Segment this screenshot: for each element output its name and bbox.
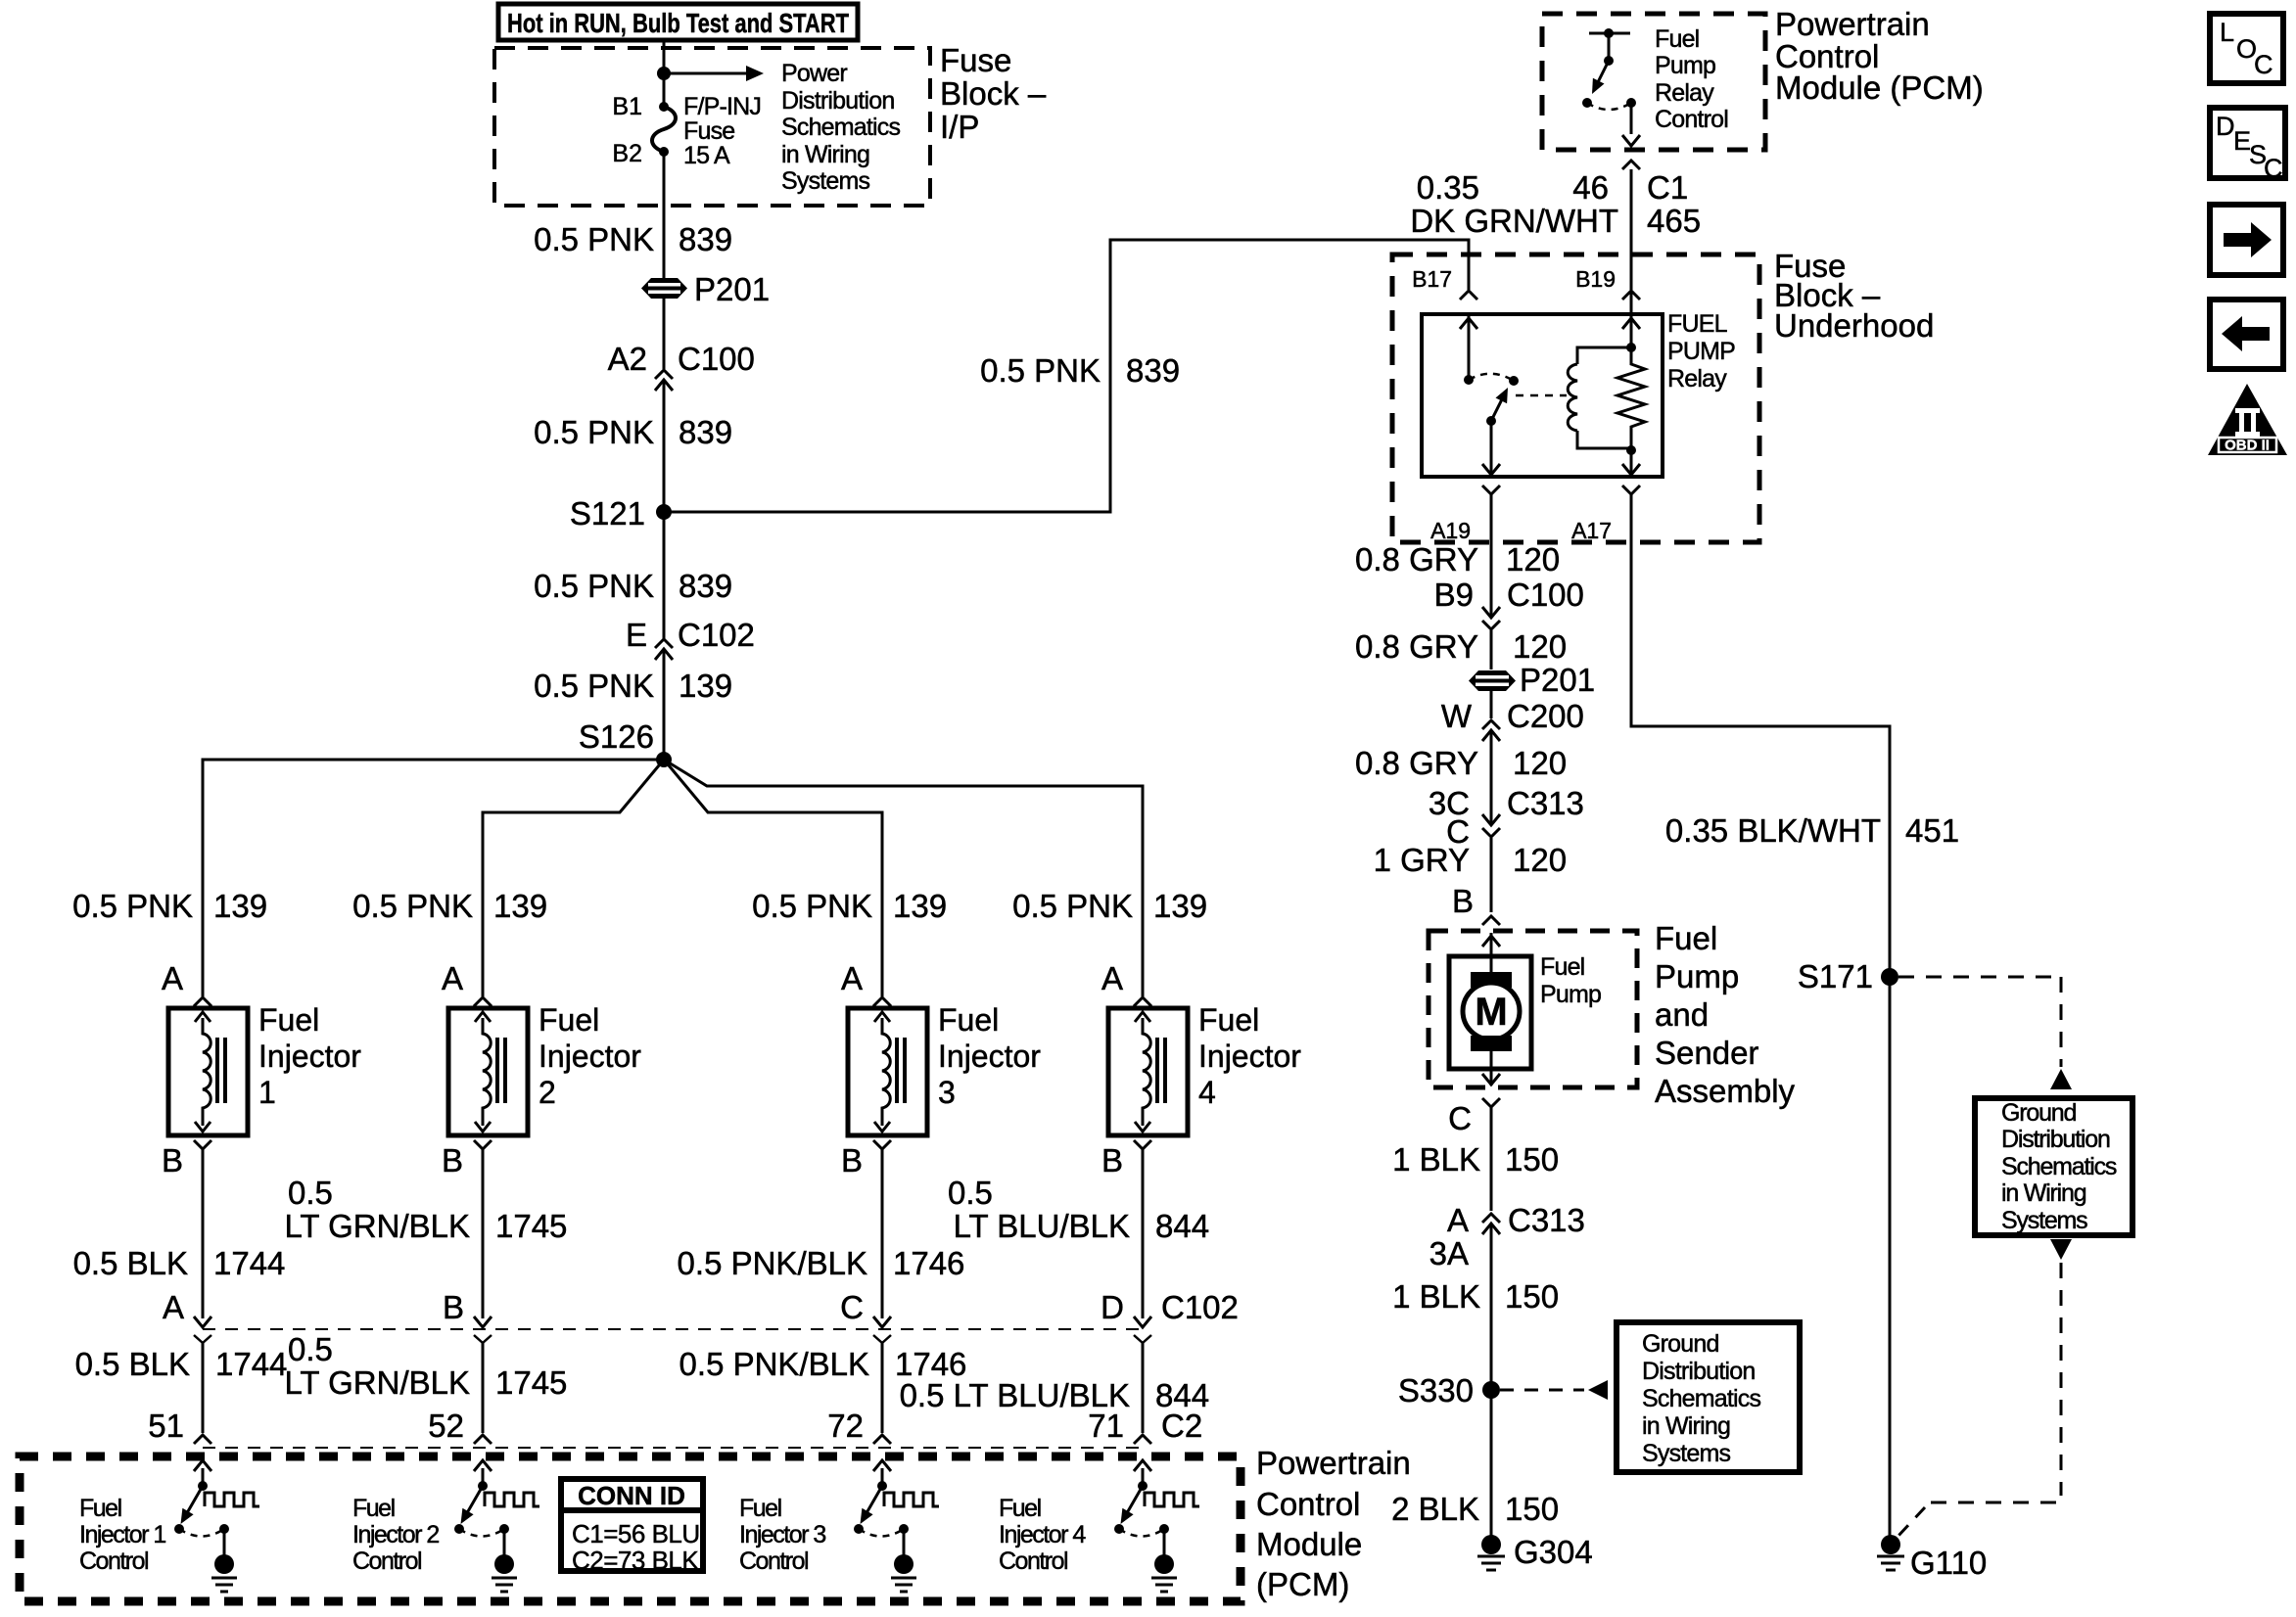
svg-text:B: B	[442, 1142, 463, 1178]
svg-text:Injector 4: Injector 4	[999, 1521, 1086, 1548]
connector arrow into C102 (injector 1)	[194, 1317, 211, 1327]
relay resistor	[1617, 347, 1645, 448]
connector symbol C100 B9	[1482, 607, 1500, 618]
wire label 1 BLK 150 (1)	[1392, 1141, 1559, 1178]
svg-text:1 GRY: 1 GRY	[1374, 842, 1470, 878]
svg-text:1744: 1744	[215, 1346, 287, 1382]
svg-text:52: 52	[428, 1408, 464, 1444]
PCM driver right contact dot (injector 1)	[219, 1524, 229, 1534]
svg-text:C: C	[840, 1289, 864, 1325]
svg-text:C102: C102	[1161, 1289, 1239, 1325]
PCM driver wire to ground (injector 4)	[1163, 1529, 1166, 1558]
icon box LOC	[2210, 14, 2283, 83]
splice S126	[656, 752, 672, 767]
relay common wire to A19	[1482, 421, 1500, 477]
PCM driver switch arm (injector 3)	[861, 1486, 883, 1524]
svg-text:120: 120	[1506, 541, 1560, 577]
icon box arrow right	[2210, 205, 2283, 275]
svg-text:B2: B2	[612, 140, 642, 167]
svg-text:G304: G304	[1514, 1534, 1593, 1570]
svg-text:0.5: 0.5	[288, 1331, 333, 1367]
svg-text:3: 3	[938, 1075, 956, 1110]
relay armature contact dot	[1509, 376, 1519, 386]
PCM driver ground dot (injector 4)	[1154, 1554, 1174, 1574]
fuse block underhood dashed box	[1392, 254, 1759, 542]
svg-text:D: D	[1101, 1289, 1124, 1325]
svg-text:139: 139	[213, 888, 267, 924]
label FUEL PUMP Relay	[1667, 310, 1735, 393]
svg-text:Underhood: Underhood	[1774, 307, 1934, 344]
svg-text:1746: 1746	[893, 1245, 964, 1281]
PCM driver wire to ground (injector 3)	[903, 1529, 906, 1558]
PCM driver PWM waveform (injector 2)	[485, 1493, 539, 1506]
wire C100 to P201	[1490, 630, 1493, 670]
svg-text:0.5: 0.5	[288, 1175, 333, 1211]
PCM driver arrow (injector 4)	[1134, 1460, 1151, 1486]
fuel pump feed arrow	[1482, 933, 1500, 972]
PCM relay-control feed line	[1589, 28, 1630, 61]
label Fuel Injector 2	[539, 1002, 641, 1110]
wire injector 4 B to C102	[1142, 1149, 1145, 1318]
wire injector 1 B to C102	[202, 1149, 205, 1318]
fuel injector 1 box	[168, 1008, 248, 1135]
svg-text:P201: P201	[694, 271, 770, 307]
pin fork A (injector 2)	[474, 997, 492, 1006]
PCM driver node dot (injector 4)	[1138, 1481, 1148, 1491]
pin fork A (injector 4)	[1134, 997, 1151, 1006]
node junction above fuse	[657, 67, 671, 80]
fuel injector 4 box	[1108, 1008, 1188, 1135]
wire label 0.5 BLK 1744 (injector 1 above C102)	[73, 1245, 286, 1281]
grommet P201 (left)	[641, 278, 687, 299]
svg-text:Power: Power	[781, 60, 847, 87]
svg-text:Injector: Injector	[539, 1039, 641, 1074]
svg-text:120: 120	[1513, 745, 1567, 781]
wire injector 3 B to C102	[881, 1149, 884, 1318]
fuel pump motor circle	[1463, 983, 1520, 1039]
wire S126 branch to injector 1	[203, 760, 664, 996]
svg-text:0.35: 0.35	[1417, 169, 1479, 206]
terminal dot B2	[659, 147, 669, 157]
svg-text:C313: C313	[1508, 1202, 1585, 1238]
svg-text:1: 1	[258, 1075, 276, 1110]
svg-text:Module (PCM): Module (PCM)	[1775, 69, 1984, 106]
wire label 0.5 PNK 839 (to relay)	[980, 352, 1180, 389]
PCM driver dashed throw arc (injector 4)	[1119, 1529, 1164, 1537]
PCM driver switch arm (injector 2)	[461, 1486, 484, 1524]
connector symbol C200 W	[1482, 720, 1500, 729]
svg-text:150: 150	[1505, 1278, 1559, 1315]
wire label 1 BLK 150 (2)	[1392, 1278, 1559, 1315]
svg-text:839: 839	[1126, 352, 1180, 389]
fuel pump and sender assembly dashed box	[1429, 931, 1637, 1087]
wire label 0.8 GRY 120 (2)	[1355, 628, 1567, 665]
wire C313 to S330	[1490, 1224, 1493, 1536]
svg-text:D: D	[2216, 112, 2235, 141]
svg-text:Pump: Pump	[1540, 981, 1601, 1008]
svg-text:B: B	[162, 1142, 183, 1178]
PCM driver ground symbol (injector 1)	[211, 1578, 237, 1592]
connector symbol C100 A2	[655, 370, 673, 379]
wire label 0.35 BLK/WHT 451	[1665, 812, 1959, 849]
PCM dashed box (bottom)	[20, 1456, 1241, 1601]
svg-text:139: 139	[1153, 888, 1207, 924]
svg-text:0.5 PNK: 0.5 PNK	[1012, 888, 1133, 924]
splice S121	[656, 504, 672, 520]
svg-text:1745: 1745	[495, 1364, 567, 1401]
relay coil bottom node	[1626, 445, 1636, 455]
svg-text:C200: C200	[1507, 698, 1584, 734]
svg-text:B1: B1	[612, 93, 642, 120]
svg-text:Fuel: Fuel	[938, 1002, 999, 1038]
svg-text:Fuel: Fuel	[79, 1495, 121, 1522]
grommet P201 (right)	[1469, 670, 1516, 691]
svg-text:B: B	[443, 1289, 464, 1325]
svg-text:E: E	[626, 617, 647, 653]
svg-text:Control: Control	[999, 1548, 1067, 1575]
PCM driver ground dot (injector 1)	[214, 1554, 234, 1574]
fuel pump motor top brush	[1471, 972, 1512, 988]
svg-text:0.5 PNK: 0.5 PNK	[752, 888, 872, 924]
svg-text:0.5 PNK: 0.5 PNK	[980, 352, 1101, 389]
arrow to Power Distribution Schematics	[664, 66, 764, 81]
PCM relay-control left contact dot	[1582, 98, 1592, 108]
wire label 0.5 LT GRN/BLK 1745 (injector 2 above C102)	[284, 1175, 567, 1244]
svg-text:C313: C313	[1507, 785, 1584, 821]
fuel injector 2 coil	[475, 1012, 505, 1132]
svg-text:M: M	[1475, 991, 1507, 1034]
svg-text:0.5 PNK/BLK: 0.5 PNK/BLK	[678, 1245, 867, 1281]
svg-text:0.35 BLK/WHT: 0.35 BLK/WHT	[1665, 812, 1881, 849]
svg-text:0.8 GRY: 0.8 GRY	[1355, 541, 1478, 577]
wire label 0.35 46 C1	[1417, 169, 1688, 206]
svg-text:Ground: Ground	[2001, 1099, 2076, 1127]
PCM driver dashed throw arc (injector 3)	[859, 1529, 904, 1537]
svg-text:Schematics: Schematics	[1642, 1385, 1761, 1412]
wire label 0.5 PNK/BLK 1746 (injector 3 above C102)	[678, 1245, 965, 1281]
svg-text:0.5 PNK: 0.5 PNK	[352, 888, 473, 924]
svg-text:0.5 PNK: 0.5 PNK	[72, 888, 193, 924]
svg-text:Fuel: Fuel	[258, 1002, 319, 1038]
label Fuel Pump (motor)	[1540, 953, 1601, 1008]
wire label 0.5 LT BLU/BLK 844 (injector 4 below C102)	[900, 1377, 1209, 1413]
wire injector 4 C102 to PCM pin	[1142, 1343, 1145, 1433]
wire P201 to connector C100	[663, 298, 666, 369]
wire PCM C1 to fuse block B19	[1630, 169, 1633, 290]
svg-text:C1=56 BLU: C1=56 BLU	[572, 1519, 700, 1548]
svg-text:P201: P201	[1520, 662, 1595, 698]
svg-text:C2=73 BLK: C2=73 BLK	[572, 1546, 699, 1575]
svg-text:and: and	[1655, 996, 1709, 1033]
CONN ID table	[561, 1479, 703, 1575]
svg-text:1744: 1744	[213, 1245, 285, 1281]
wire label 0.5 PNK 839 (2)	[534, 414, 732, 450]
PCM relay-control switch arm	[1592, 56, 1614, 94]
relay common dot	[1486, 416, 1496, 426]
svg-text:Relay: Relay	[1655, 79, 1714, 107]
wire C100 to S121	[663, 380, 666, 512]
svg-text:0.5 PNK: 0.5 PNK	[534, 414, 654, 450]
svg-text:Fuse: Fuse	[940, 42, 1011, 78]
pin fork B (injector 4)	[1134, 1140, 1151, 1149]
wire S121 to fuel pump relay B17	[664, 240, 1469, 512]
label Fuse Block - I/P	[940, 42, 1047, 145]
relay coil (winding)	[1568, 347, 1631, 448]
wire P201 to connector C200	[1490, 690, 1493, 718]
PCM driver arrow (injector 3)	[873, 1460, 891, 1486]
svg-text:C2: C2	[1161, 1408, 1202, 1444]
svg-text:Control: Control	[352, 1548, 421, 1575]
label Powertrain Control Module (PCM) bottom	[1256, 1445, 1411, 1602]
svg-text:Ground: Ground	[1642, 1330, 1719, 1358]
PCM driver dashed throw arc (injector 2)	[459, 1529, 504, 1537]
PCM relay-control right contact dot	[1626, 98, 1636, 108]
PCM driver left contact dot (injector 1)	[174, 1524, 184, 1534]
svg-text:15 A: 15 A	[683, 142, 730, 169]
svg-text:A: A	[1101, 960, 1123, 996]
pin fork B (injector 1)	[194, 1140, 211, 1149]
svg-text:Injector 2: Injector 2	[352, 1521, 439, 1548]
connector fork below C102 (injector 2)	[474, 1335, 492, 1343]
svg-text:Fuel: Fuel	[999, 1495, 1041, 1522]
wire label 0.5 LT GRN/BLK 1745 (injector 2 below C102)	[284, 1331, 567, 1401]
PCM driver arrow (injector 2)	[474, 1460, 492, 1486]
PCM driver PWM waveform (injector 3)	[884, 1493, 939, 1506]
svg-text:0.8 GRY: 0.8 GRY	[1355, 745, 1478, 781]
connector C102 dashed separation line	[203, 1328, 1143, 1330]
svg-text:A: A	[841, 960, 863, 996]
svg-text:A: A	[1447, 1202, 1469, 1238]
svg-text:150: 150	[1505, 1141, 1559, 1178]
fuse F/P-INJ element (S-curve)	[652, 107, 676, 152]
svg-text:451: 451	[1905, 812, 1959, 849]
svg-text:B: B	[1101, 1142, 1123, 1178]
label Fuel Pump Relay Control	[1655, 25, 1728, 133]
PCM driver wire to ground (injector 2)	[503, 1529, 506, 1558]
label Fuel Injector 1	[258, 1002, 361, 1110]
pin fork 71 at PCM	[1134, 1435, 1151, 1444]
wire A19 to connector C100 B9	[1490, 494, 1493, 618]
dashed reference link from S171	[1898, 977, 2072, 1089]
PCM driver wire to ground (injector 1)	[223, 1529, 226, 1558]
svg-text:in Wiring: in Wiring	[2001, 1179, 2086, 1207]
PCM driver arrow (injector 1)	[194, 1460, 211, 1486]
svg-text:1 BLK: 1 BLK	[1392, 1141, 1480, 1178]
svg-text:Pump: Pump	[1655, 958, 1739, 994]
svg-text:Control: Control	[79, 1548, 148, 1575]
svg-text:Injector 3: Injector 3	[739, 1521, 825, 1548]
svg-text:B9: B9	[1434, 577, 1474, 613]
svg-text:C1: C1	[1647, 169, 1688, 206]
ground G304 symbol	[1477, 1556, 1505, 1570]
icon OBD II triangle	[2208, 384, 2287, 455]
pin fork C (fuel pump)	[1482, 1098, 1500, 1107]
svg-text:Control: Control	[1655, 106, 1728, 133]
wire fuse B2 down to P201	[663, 152, 666, 279]
PCM driver left contact dot (injector 3)	[854, 1524, 864, 1534]
svg-text:DK GRN/WHT: DK GRN/WHT	[1410, 203, 1618, 239]
relay coil top node	[1626, 343, 1636, 352]
svg-text:0.5 PNK: 0.5 PNK	[534, 568, 654, 604]
svg-text:Distribution: Distribution	[2001, 1126, 2110, 1153]
svg-text:A: A	[442, 960, 463, 996]
svg-text:120: 120	[1513, 842, 1567, 878]
fuel pump motor bottom brush	[1471, 1036, 1512, 1051]
svg-text:LT GRN/BLK: LT GRN/BLK	[284, 1364, 470, 1401]
svg-text:51: 51	[148, 1408, 184, 1444]
svg-text:in Wiring: in Wiring	[781, 141, 869, 168]
wire injector 1 C102 to PCM pin	[202, 1343, 205, 1433]
svg-text:Powertrain: Powertrain	[1775, 6, 1930, 42]
splice S330	[1482, 1381, 1500, 1399]
pin fork A17	[1622, 485, 1640, 494]
svg-text:G110: G110	[1910, 1545, 1987, 1581]
svg-text:Pump: Pump	[1655, 52, 1715, 79]
wire label 0.8 GRY 120 (1)	[1355, 541, 1560, 577]
PCM driver ground dot (injector 2)	[494, 1554, 514, 1574]
PCM driver dashed throw arc (injector 1)	[179, 1529, 224, 1537]
svg-text:C100: C100	[1507, 577, 1584, 613]
svg-text:C100: C100	[678, 341, 755, 377]
svg-text:Block –: Block –	[940, 75, 1047, 112]
svg-text:W: W	[1441, 698, 1473, 734]
wire label 0.5 PNK 139 (injector 2)	[352, 888, 547, 924]
label Fuel Pump and Sender Assembly	[1655, 920, 1796, 1109]
wire label 0.5 PNK 139 (trunk)	[534, 668, 732, 704]
relay wire from B19	[1622, 291, 1640, 347]
wire C313 to fuel pump	[1490, 838, 1493, 912]
wire label 0.8 GRY 120 (3)	[1355, 745, 1567, 781]
svg-text:A: A	[162, 960, 183, 996]
connector arrow into C102 (injector 2)	[474, 1317, 492, 1327]
label F/P-INJ Fuse 15 A	[683, 93, 761, 169]
svg-text:465: 465	[1647, 203, 1701, 239]
svg-text:C: C	[2254, 50, 2273, 79]
svg-text:839: 839	[679, 568, 732, 604]
wire S121 to connector C102	[663, 512, 666, 639]
svg-text:Fuel: Fuel	[1655, 920, 1717, 956]
pin fork B (fuel pump)	[1482, 916, 1500, 925]
svg-text:LT GRN/BLK: LT GRN/BLK	[284, 1208, 470, 1244]
PCM driver PWM waveform (injector 4)	[1145, 1493, 1199, 1506]
svg-text:Distribution: Distribution	[1642, 1358, 1755, 1385]
connector fork below C102 (injector 4)	[1134, 1335, 1151, 1343]
svg-text:L: L	[2220, 18, 2234, 47]
splice S171	[1881, 968, 1898, 986]
dashed reference link to G110	[1898, 1239, 2072, 1537]
fuse block I/P dashed box	[494, 48, 930, 206]
relay fixed contact from B17	[1460, 314, 1477, 385]
label Fuel Injector 3	[938, 1002, 1041, 1110]
wire S126 branch to injector 4	[664, 760, 1143, 996]
svg-text:in Wiring: in Wiring	[1642, 1412, 1730, 1440]
wire label 0.5 PNK 139 (injector 1)	[72, 888, 267, 924]
svg-text:Module: Module	[1256, 1526, 1362, 1562]
svg-text:S126: S126	[579, 718, 654, 755]
connector arrow into C102 (injector 3)	[873, 1317, 891, 1327]
label Fuel Injector 4 Control	[999, 1495, 1086, 1575]
svg-text:Fuel: Fuel	[1655, 25, 1699, 53]
PCM driver PWM waveform (injector 1)	[205, 1493, 259, 1506]
svg-text:OBD II: OBD II	[2225, 438, 2270, 454]
svg-text:0.5 PNK: 0.5 PNK	[534, 221, 654, 257]
svg-text:(PCM): (PCM)	[1256, 1566, 1349, 1602]
svg-text:B: B	[1452, 883, 1474, 919]
label Fuel Injector 4	[1198, 1002, 1301, 1110]
svg-text:B19: B19	[1575, 266, 1616, 292]
svg-text:LT BLU/BLK: LT BLU/BLK	[954, 1208, 1130, 1244]
svg-text:Fuel: Fuel	[352, 1495, 395, 1522]
pin fork C1 below PCM	[1622, 161, 1640, 169]
svg-text:A: A	[163, 1289, 184, 1325]
svg-text:C: C	[1448, 1100, 1472, 1136]
pin fork A (injector 3)	[873, 997, 891, 1006]
svg-text:FUEL: FUEL	[1667, 310, 1728, 338]
relay dashed actuation link	[1516, 394, 1567, 397]
svg-text:PUMP: PUMP	[1667, 338, 1735, 365]
terminal dot B1	[659, 102, 669, 112]
wire S126 branch to injector 3	[664, 760, 882, 996]
ground G110 symbol	[1877, 1556, 1904, 1570]
svg-text:Systems: Systems	[1642, 1440, 1731, 1467]
PCM driver right contact dot (injector 4)	[1159, 1524, 1169, 1534]
connector symbol C313 A 3A	[1482, 1214, 1500, 1223]
svg-text:F/P-INJ: F/P-INJ	[683, 93, 761, 120]
PCM relay-control dashed throw arc	[1587, 103, 1631, 110]
wire injector 2 C102 to PCM pin	[482, 1343, 485, 1433]
svg-text:839: 839	[679, 414, 732, 450]
fuel pump return wire	[1482, 1051, 1500, 1086]
pin fork A19	[1482, 485, 1500, 494]
svg-text:Schematics: Schematics	[2001, 1153, 2117, 1180]
fuel injector 4 coil	[1135, 1012, 1165, 1132]
wire label 1 GRY 120	[1374, 842, 1568, 878]
ground G110 dot	[1881, 1535, 1900, 1554]
svg-text:Hot in RUN, Bulb Test and STAR: Hot in RUN, Bulb Test and START	[507, 8, 849, 38]
svg-text:2: 2	[539, 1075, 556, 1110]
svg-text:139: 139	[679, 668, 732, 704]
svg-text:72: 72	[827, 1408, 864, 1444]
svg-text:139: 139	[893, 888, 947, 924]
svg-text:0.5 PNK: 0.5 PNK	[534, 668, 654, 704]
svg-text:Injector: Injector	[258, 1039, 361, 1074]
pin fork 51 at PCM	[194, 1435, 211, 1444]
wire label 0.5 LT BLU/BLK 844 (injector 4 above C102)	[948, 1175, 1209, 1244]
svg-text:Distribution: Distribution	[781, 87, 894, 115]
fuel injector 2 box	[448, 1008, 528, 1135]
wire fuel pump C to C313 A	[1490, 1107, 1493, 1211]
svg-text:Schematics: Schematics	[781, 114, 901, 141]
fuel injector 3 coil	[874, 1012, 905, 1132]
PCM driver left contact dot (injector 2)	[454, 1524, 464, 1534]
ground distribution reference box (S171)	[1975, 1098, 2132, 1235]
fuel pump motor box	[1449, 956, 1531, 1069]
pin fork B (injector 3)	[873, 1140, 891, 1149]
pin fork B (injector 2)	[474, 1140, 492, 1149]
wire label 0.5 PNK 839 (3)	[534, 568, 732, 604]
svg-text:2 BLK: 2 BLK	[1391, 1491, 1479, 1527]
svg-text:71: 71	[1088, 1408, 1124, 1444]
svg-text:C102: C102	[678, 617, 755, 653]
svg-text:Fuel: Fuel	[1198, 1002, 1259, 1038]
svg-text:I/P: I/P	[940, 109, 979, 145]
PCM driver left contact dot (injector 4)	[1114, 1524, 1124, 1534]
svg-text:S330: S330	[1398, 1372, 1474, 1409]
svg-text:Fuse: Fuse	[683, 117, 734, 145]
label Fuel Injector 1 Control	[79, 1495, 165, 1575]
wire injector 2 B to C102	[482, 1149, 485, 1318]
svg-text:Injector 1: Injector 1	[79, 1521, 165, 1548]
